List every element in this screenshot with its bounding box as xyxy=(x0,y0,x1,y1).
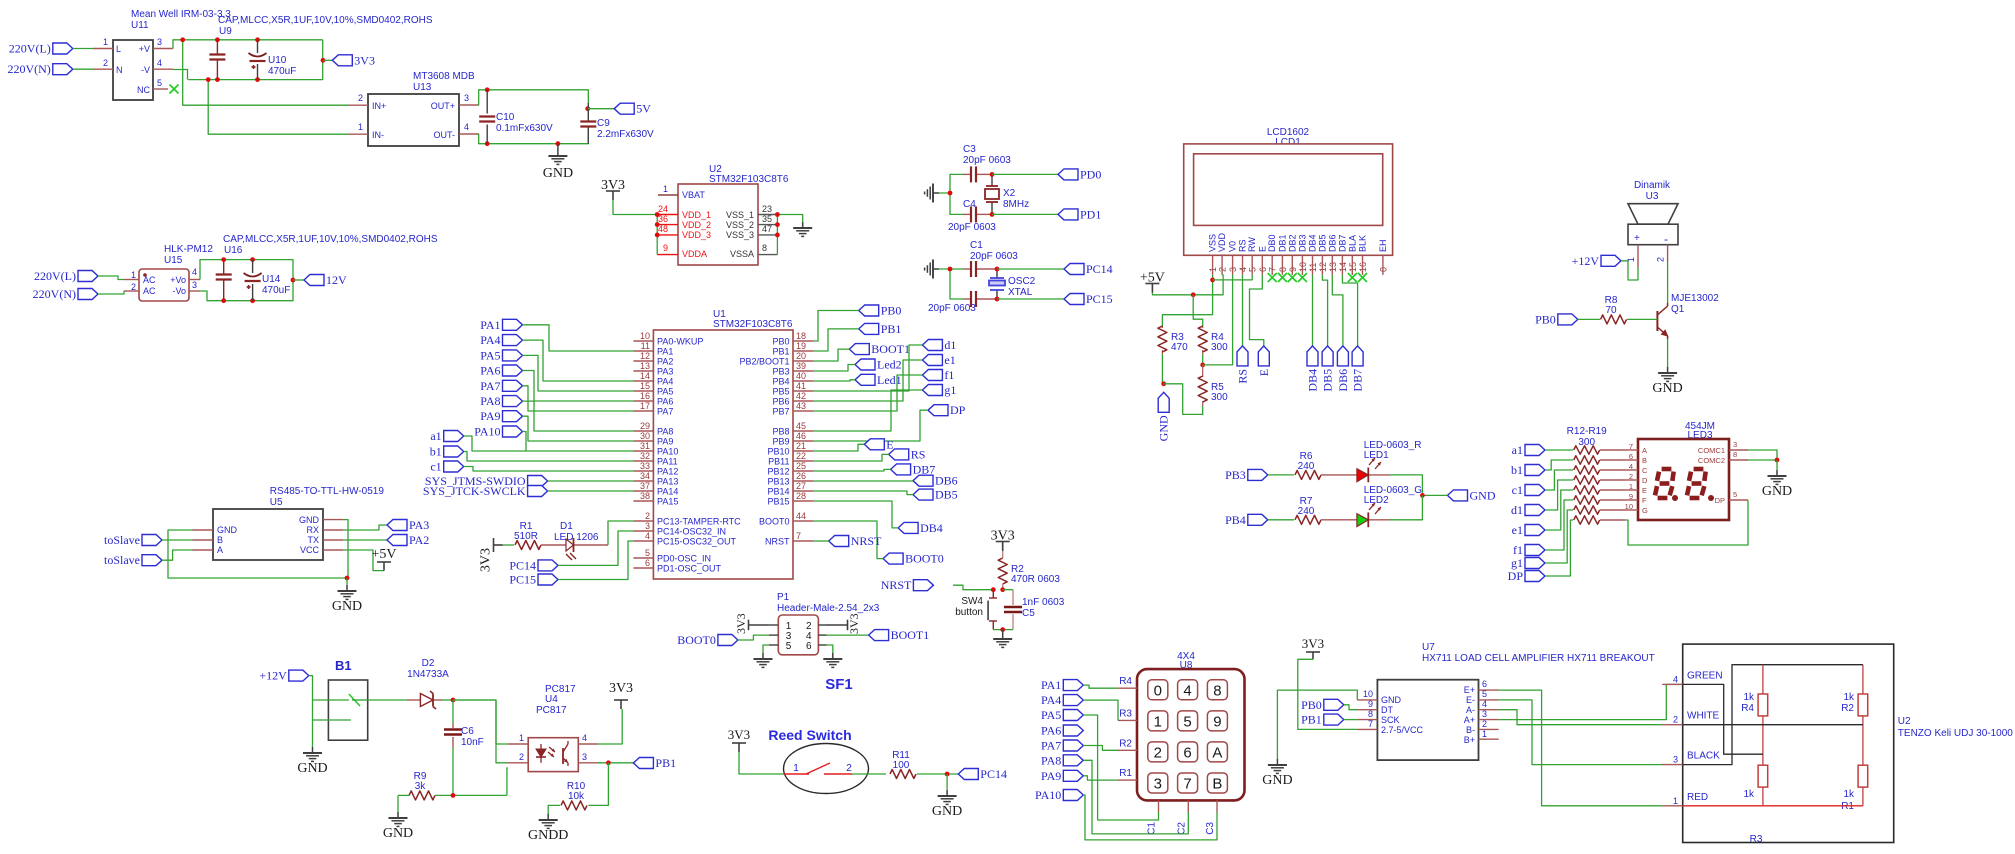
header P1 xyxy=(778,615,818,655)
wire into B1 top contact xyxy=(313,699,349,701)
svg-text:CAP,MLCC,X5R,1UF,10V,10%,SMD04: CAP,MLCC,X5R,1UF,10V,10%,SMD0402,ROHS xyxy=(218,15,433,26)
junction xyxy=(1775,458,1780,463)
svg-text:WHITE: WHITE xyxy=(1687,711,1720,722)
svg-text:0.1mFx630V: 0.1mFx630V xyxy=(496,123,553,134)
net flag PA1 left of U1 xyxy=(480,318,522,332)
svg-text:240: 240 xyxy=(1298,506,1315,517)
LED3 digit 2 (8) xyxy=(1687,469,1706,498)
label LED1 part xyxy=(1364,440,1422,451)
svg-text:E+: E+ xyxy=(1464,685,1475,695)
svg-text:d1: d1 xyxy=(944,338,956,352)
svg-text:VSS_3: VSS_3 xyxy=(726,230,754,240)
svg-text:-: - xyxy=(1664,232,1668,246)
svg-text:OUT+: OUT+ xyxy=(431,101,455,111)
svg-text:35: 35 xyxy=(762,214,772,224)
junction xyxy=(990,212,995,217)
svg-text:3k: 3k xyxy=(415,781,427,792)
svg-text:2: 2 xyxy=(1482,719,1487,729)
U4 internal phototransistor xyxy=(563,741,568,766)
svg-text:3: 3 xyxy=(582,752,587,762)
svg-text:6: 6 xyxy=(1482,679,1487,689)
net flag e1 at resistor pack xyxy=(1512,523,1545,537)
net flag PB0 at R8 xyxy=(1535,312,1578,326)
keypad C2 stub xyxy=(1187,800,1189,812)
power flag 3V3 above U2 xyxy=(601,178,625,200)
junction xyxy=(255,37,260,42)
svg-text:2.7-5/VCC: 2.7-5/VCC xyxy=(1381,725,1424,735)
svg-text:R3: R3 xyxy=(1119,708,1132,719)
P1 pin6 stub xyxy=(818,644,826,646)
resistor R5 leads xyxy=(1202,365,1204,406)
svg-text:R1: R1 xyxy=(1841,801,1854,812)
capacitor C1 leads xyxy=(963,268,997,270)
U7 right pin numbers xyxy=(1482,679,1487,739)
bridge R2 top lead xyxy=(1862,665,1864,694)
resistor R8 xyxy=(1601,295,1627,324)
capacitor C3 leads xyxy=(963,173,992,175)
label X2 xyxy=(1003,188,1016,199)
svg-text:20pF 0603: 20pF 0603 xyxy=(928,303,976,314)
svg-text:LED1: LED1 xyxy=(1364,450,1389,461)
net flag PB0 right of U1 xyxy=(859,304,902,318)
svg-text:A: A xyxy=(217,545,223,555)
svg-text:300: 300 xyxy=(1211,342,1228,353)
U13 pin 4 stub xyxy=(459,133,479,135)
U1 pin names xyxy=(657,337,790,574)
switch box B1 xyxy=(328,680,367,740)
power flag 3V3 above R2 xyxy=(991,529,1015,551)
svg-text:toSlave: toSlave xyxy=(104,533,140,547)
svg-text:A+: A+ xyxy=(1464,715,1475,725)
junction xyxy=(556,141,561,146)
svg-text:b1: b1 xyxy=(430,445,442,459)
svg-text:VCC: VCC xyxy=(300,545,320,555)
keypad key B xyxy=(1207,773,1227,793)
label U11 part name xyxy=(131,9,231,20)
net flag a1 at resistor pack xyxy=(1512,443,1545,457)
capacitor U9 xyxy=(209,55,225,60)
svg-text:GND: GND xyxy=(1157,415,1171,441)
svg-text:240: 240 xyxy=(1298,461,1315,472)
svg-text:1k: 1k xyxy=(1843,692,1855,703)
LED D1 xyxy=(566,538,576,560)
U11 pin numbers xyxy=(103,37,162,88)
svg-text:B: B xyxy=(1212,776,1222,793)
svg-text:PA7: PA7 xyxy=(657,407,673,417)
7-segment display LED3 xyxy=(1638,439,1729,520)
junction xyxy=(451,793,456,798)
svg-text:U7: U7 xyxy=(1422,642,1435,653)
load cell pin number 4 xyxy=(1673,674,1678,684)
U13 pin 3 stub xyxy=(459,104,479,106)
svg-text:PA7: PA7 xyxy=(480,379,500,393)
svg-text:f1: f1 xyxy=(1513,543,1523,557)
svg-text:PA2: PA2 xyxy=(409,533,429,547)
net flag PD1 xyxy=(1058,207,1101,221)
svg-text:BOOT0: BOOT0 xyxy=(905,552,944,566)
U15 pin numbers xyxy=(131,267,197,292)
svg-text:28: 28 xyxy=(796,491,806,501)
U15 pin 2 stub xyxy=(124,290,139,292)
label C4 value xyxy=(948,222,996,233)
wire PA8 to C2 xyxy=(1083,760,1188,834)
svg-text:-V: -V xyxy=(141,65,150,75)
svg-text:RS485-TO-TTL-HW-0519: RS485-TO-TTL-HW-0519 xyxy=(270,486,385,497)
wire toSlave to B xyxy=(162,539,193,541)
svg-text:RS: RS xyxy=(1236,369,1250,384)
wire g1 xyxy=(813,390,922,431)
bridge resistor R4 (1k) xyxy=(1741,692,1767,716)
svg-text:DB0: DB0 xyxy=(1267,234,1277,252)
wire speaker pin2 to Q1 collector xyxy=(1667,262,1669,303)
svg-text:PB0: PB0 xyxy=(1535,312,1556,326)
net flag DB6 below LCD xyxy=(1336,346,1350,392)
ground GNDD below R10 xyxy=(528,814,568,843)
svg-text:D1: D1 xyxy=(560,521,573,532)
wire reed switch to R11 xyxy=(852,773,886,775)
svg-text:A: A xyxy=(1212,744,1222,761)
capacitor C2 xyxy=(971,291,976,307)
svg-text:MT3608 MDB: MT3608 MDB xyxy=(413,71,475,82)
wire to ground below SW4 xyxy=(1002,630,1004,633)
bridge resistor lower-left (1k) xyxy=(1743,765,1767,800)
net flag DB4 right of U1 xyxy=(898,521,943,535)
no-connect X on LCD pin at x=1282.4 xyxy=(1278,273,1287,282)
svg-text:E: E xyxy=(1257,246,1267,252)
LCD pin stubs xyxy=(1213,255,1383,275)
wire PC14 to U1 xyxy=(558,531,633,565)
svg-text:3: 3 xyxy=(1482,709,1487,719)
LCD pin numbers xyxy=(1208,262,1388,272)
crystal X2 leads xyxy=(991,174,993,214)
U2 VSS_1 stub xyxy=(758,214,777,216)
junction xyxy=(215,77,220,82)
net flag 12V output xyxy=(304,273,347,287)
net flag PB3 xyxy=(1225,468,1268,482)
wire PB3 to R6 xyxy=(1268,474,1294,476)
wire gnd to C1 xyxy=(939,268,963,270)
svg-text:41: 41 xyxy=(796,381,806,391)
svg-text:PB14: PB14 xyxy=(767,487,789,497)
ground below Q1 xyxy=(1652,367,1682,396)
svg-text:31: 31 xyxy=(640,441,650,451)
junction xyxy=(1210,278,1215,283)
U7 right stub y=690.1 xyxy=(1479,689,1499,691)
resistor R3 leads xyxy=(1161,326,1163,354)
svg-text:C2: C2 xyxy=(1176,822,1187,835)
net flag Led1 xyxy=(855,373,902,387)
svg-text:L: L xyxy=(116,44,121,54)
zener diode D2 xyxy=(420,691,436,709)
svg-text:70: 70 xyxy=(1605,305,1617,316)
svg-text:9: 9 xyxy=(663,243,668,253)
wire U15 output loop xyxy=(200,260,293,301)
P1 pin3 stub xyxy=(769,634,778,636)
svg-text:C: C xyxy=(1642,466,1648,475)
P1 pin4 stub xyxy=(818,634,826,636)
svg-text:LED2: LED2 xyxy=(1364,495,1389,506)
net flag e1 xyxy=(922,353,955,367)
svg-text:3V3: 3V3 xyxy=(991,529,1015,544)
svg-text:U9: U9 xyxy=(219,26,232,37)
junction xyxy=(1000,587,1005,592)
svg-text:PB2/BOOT1: PB2/BOOT1 xyxy=(739,357,789,367)
load cell stub GREEN xyxy=(1662,683,1683,685)
net flag PA3 xyxy=(387,518,429,532)
P1 pin numbers xyxy=(786,621,812,652)
svg-text:1N4733A: 1N4733A xyxy=(407,669,449,680)
U7 right stub y=719.6 xyxy=(1479,719,1499,721)
svg-text:RS: RS xyxy=(1238,239,1248,252)
svg-text:1: 1 xyxy=(793,763,799,774)
optocoupler U4 xyxy=(528,738,578,772)
P1 pin1 stub xyxy=(769,624,778,626)
svg-text:C3: C3 xyxy=(1205,822,1216,835)
svg-text:7: 7 xyxy=(1183,776,1191,793)
U2 VSSA stub xyxy=(758,254,777,256)
svg-text:VSS: VSS xyxy=(1208,234,1218,252)
wire PA8 to U1 xyxy=(523,401,634,431)
P1 pin5 stub xyxy=(769,644,778,646)
svg-text:1k: 1k xyxy=(1743,692,1755,703)
svg-text:DB7: DB7 xyxy=(913,462,936,476)
svg-text:TENZO Keli UDJ 30-1000: TENZO Keli UDJ 30-1000 xyxy=(1898,728,2013,739)
wire VDD vertical xyxy=(656,215,658,255)
svg-text:2.2mFx630V: 2.2mFx630V xyxy=(597,129,654,140)
svg-text:IN+: IN+ xyxy=(372,101,386,111)
net flag PA7 at keypad xyxy=(1041,739,1083,753)
resistor R12 xyxy=(1574,446,1600,454)
svg-text:PB13: PB13 xyxy=(767,477,789,487)
wire PB0 xyxy=(813,311,859,342)
load cell pin name WHITE xyxy=(1687,711,1720,722)
R14 right lead xyxy=(1600,469,1625,471)
svg-text:PA10: PA10 xyxy=(657,447,678,457)
svg-text:GND: GND xyxy=(932,804,962,819)
wire 3V3 to R1 xyxy=(503,544,515,546)
wire R3 to GND flag xyxy=(1161,354,1163,384)
label C9 xyxy=(597,118,610,129)
crystal OSC2 (blue) xyxy=(989,278,1005,290)
U2 VDDA stub xyxy=(657,254,678,256)
speaker pin 1 stub xyxy=(1637,245,1639,267)
net flag PD0 xyxy=(1058,167,1101,181)
svg-text:+5V: +5V xyxy=(1140,271,1165,286)
svg-text:1k: 1k xyxy=(1743,789,1755,800)
svg-text:GND: GND xyxy=(1470,488,1496,502)
net flag DP at resistor pack xyxy=(1508,569,1545,583)
net flag PC14 left xyxy=(509,558,558,572)
wire LCD DB6 down xyxy=(1332,275,1343,346)
ground below R9 xyxy=(383,812,413,841)
junction xyxy=(255,77,260,82)
U2 VDD_1 stub xyxy=(657,214,678,216)
svg-text:PA3: PA3 xyxy=(657,367,673,377)
junction xyxy=(655,233,660,238)
svg-text:30: 30 xyxy=(640,431,650,441)
capacitor C10 leads xyxy=(486,90,488,144)
svg-text:1: 1 xyxy=(131,270,136,280)
U15 pin 1 stub xyxy=(124,279,139,281)
LCD1602 module LCD1 xyxy=(1184,144,1393,255)
svg-text:2: 2 xyxy=(645,511,650,521)
svg-text:NC: NC xyxy=(137,85,150,95)
svg-text:a1: a1 xyxy=(430,429,441,443)
resistor R3 xyxy=(1158,326,1188,353)
svg-text:B: B xyxy=(1642,456,1647,465)
net flag PA9 at keypad xyxy=(1041,769,1083,783)
label LCD part name xyxy=(1267,127,1310,138)
svg-text:GND: GND xyxy=(383,826,413,841)
svg-text:C4: C4 xyxy=(963,199,976,210)
U7 left stub y=709.7 xyxy=(1357,709,1377,711)
svg-text:BLA: BLA xyxy=(1347,235,1357,252)
U4 internal LED xyxy=(536,744,555,763)
wire R4 to junction xyxy=(1202,354,1204,365)
svg-text:DB7: DB7 xyxy=(1351,369,1365,392)
keypad key 7 xyxy=(1178,773,1198,793)
svg-text:MJE13002: MJE13002 xyxy=(1671,293,1719,304)
wire NRST to SW4 xyxy=(953,585,993,590)
HX711 module U7 xyxy=(1377,680,1478,760)
U2 pin numbers xyxy=(658,184,772,253)
wire +12V to speaker pin1 xyxy=(1621,261,1638,280)
junction xyxy=(655,222,660,227)
svg-text:+V: +V xyxy=(139,44,150,54)
wire R9 to C6 node xyxy=(435,794,507,796)
svg-text:PA9: PA9 xyxy=(1041,769,1061,783)
label R12-R19 xyxy=(1567,426,1607,437)
svg-text:4: 4 xyxy=(192,267,197,277)
svg-text:PB1: PB1 xyxy=(772,347,789,357)
svg-text:+: + xyxy=(1634,233,1640,244)
svg-text:PA5: PA5 xyxy=(657,387,673,397)
keypad R1 stub xyxy=(1118,779,1137,781)
power label 3V3 at U4 xyxy=(609,681,633,696)
svg-text:PA8: PA8 xyxy=(657,427,673,437)
svg-text:PA0-WKUP: PA0-WKUP xyxy=(657,337,703,347)
load cell stub WHITE xyxy=(1662,724,1683,726)
ground at reed switch xyxy=(932,790,962,819)
svg-text:VBAT: VBAT xyxy=(682,190,705,200)
svg-text:3V3: 3V3 xyxy=(1302,636,1324,651)
svg-text:PB1: PB1 xyxy=(655,756,676,770)
load cell pin name GREEN xyxy=(1687,670,1723,681)
svg-text:R12-R19: R12-R19 xyxy=(1567,426,1607,437)
svg-text:20pF 0603: 20pF 0603 xyxy=(970,251,1018,262)
net flag f1 at resistor pack xyxy=(1513,543,1545,557)
keypad key 3 xyxy=(1148,773,1168,793)
junction xyxy=(995,297,1000,302)
svg-text:U3: U3 xyxy=(1646,191,1659,202)
resistor R10 xyxy=(561,781,587,810)
svg-text:PA9: PA9 xyxy=(657,437,673,447)
net flag DB5 below LCD xyxy=(1321,346,1335,392)
wire D2 to vertical xyxy=(453,699,496,701)
capacitor C3 xyxy=(971,166,976,182)
svg-text:Header-Male-2.54_2x3: Header-Male-2.54_2x3 xyxy=(777,603,880,614)
wire OUT- to GND xyxy=(557,144,559,150)
U5 A stub xyxy=(193,549,214,551)
ground left of C3 (rotated) xyxy=(925,184,939,203)
wire +V down to IN+ xyxy=(183,40,349,105)
wire f1 to resistor xyxy=(1545,500,1573,550)
svg-text:PA4: PA4 xyxy=(480,333,500,347)
svg-text:VDD_2: VDD_2 xyxy=(682,220,711,230)
ground for U2 xyxy=(793,222,812,236)
wire 3V3 to reed switch xyxy=(739,752,784,774)
net flag c1 xyxy=(430,460,463,474)
wire DB4 xyxy=(813,501,898,528)
bridge right mid leads xyxy=(1862,716,1864,765)
net flag PB4 xyxy=(1225,513,1268,527)
svg-text:PB3: PB3 xyxy=(1225,468,1246,482)
svg-text:16: 16 xyxy=(640,391,650,401)
svg-text:3: 3 xyxy=(645,521,650,531)
svg-text:17: 17 xyxy=(640,401,650,411)
U2 VBAT stub xyxy=(658,194,678,196)
label D1 xyxy=(560,521,573,532)
svg-text:470uF: 470uF xyxy=(262,285,290,296)
wire to 5V flag xyxy=(588,108,615,110)
svg-text:1: 1 xyxy=(663,184,668,194)
wire PA1 to U1 xyxy=(523,325,634,351)
net flag PA7 left of U1 xyxy=(480,379,522,393)
no-connect X on LCD pin at x=1362.5 xyxy=(1358,273,1367,282)
svg-text:10nF: 10nF xyxy=(461,737,484,748)
bridge top rail wire xyxy=(1733,664,1863,666)
svg-text:DB4: DB4 xyxy=(1306,369,1320,392)
net flag PC14 right xyxy=(1064,262,1113,276)
junction xyxy=(1000,627,1005,632)
svg-text:48: 48 xyxy=(658,224,668,234)
switch lever inside B1 xyxy=(349,694,368,706)
svg-text:DP: DP xyxy=(1715,496,1725,505)
svg-text:2: 2 xyxy=(846,763,852,774)
resistor R16 xyxy=(1574,486,1600,494)
power label 3V3 at U7 xyxy=(1302,636,1324,651)
svg-text:VDD: VDD xyxy=(1217,232,1227,252)
U7 left stub y=719.6 xyxy=(1357,719,1377,721)
svg-text:2: 2 xyxy=(1673,715,1678,725)
svg-text:46: 46 xyxy=(796,431,806,441)
wire C6 to R9 node xyxy=(452,747,454,795)
keypad key 5 xyxy=(1178,711,1198,731)
wire R9 to GND xyxy=(397,795,399,812)
net flag RS right of U1 xyxy=(889,447,926,461)
no-connect X on LCD pin at x=1272.2 xyxy=(1268,273,1277,282)
svg-text:TX: TX xyxy=(307,535,319,545)
svg-text:1: 1 xyxy=(1673,796,1678,806)
svg-text:Dinamik: Dinamik xyxy=(1634,180,1671,191)
no-connect X on LCD pin at x=1352.3 xyxy=(1348,273,1357,282)
U4 pin 3 stub xyxy=(578,762,598,764)
net flag Led2 xyxy=(855,358,902,372)
svg-text:U4: U4 xyxy=(545,694,558,705)
svg-text:8: 8 xyxy=(1368,709,1373,719)
svg-text:U2: U2 xyxy=(1898,716,1911,727)
wire GREEN to left mid node xyxy=(1683,684,1763,754)
svg-text:3: 3 xyxy=(1733,440,1737,449)
wire OUT+ top rail xyxy=(479,90,589,105)
ground below P1 pin6 xyxy=(823,653,842,667)
wire R3 bottom to R5 bottom xyxy=(1164,384,1203,415)
keypad key 4 xyxy=(1178,680,1198,700)
keypad key 0 xyxy=(1148,680,1168,700)
svg-text:PC14: PC14 xyxy=(980,767,1007,781)
keypad key 6 xyxy=(1178,742,1198,762)
junction xyxy=(585,106,590,111)
